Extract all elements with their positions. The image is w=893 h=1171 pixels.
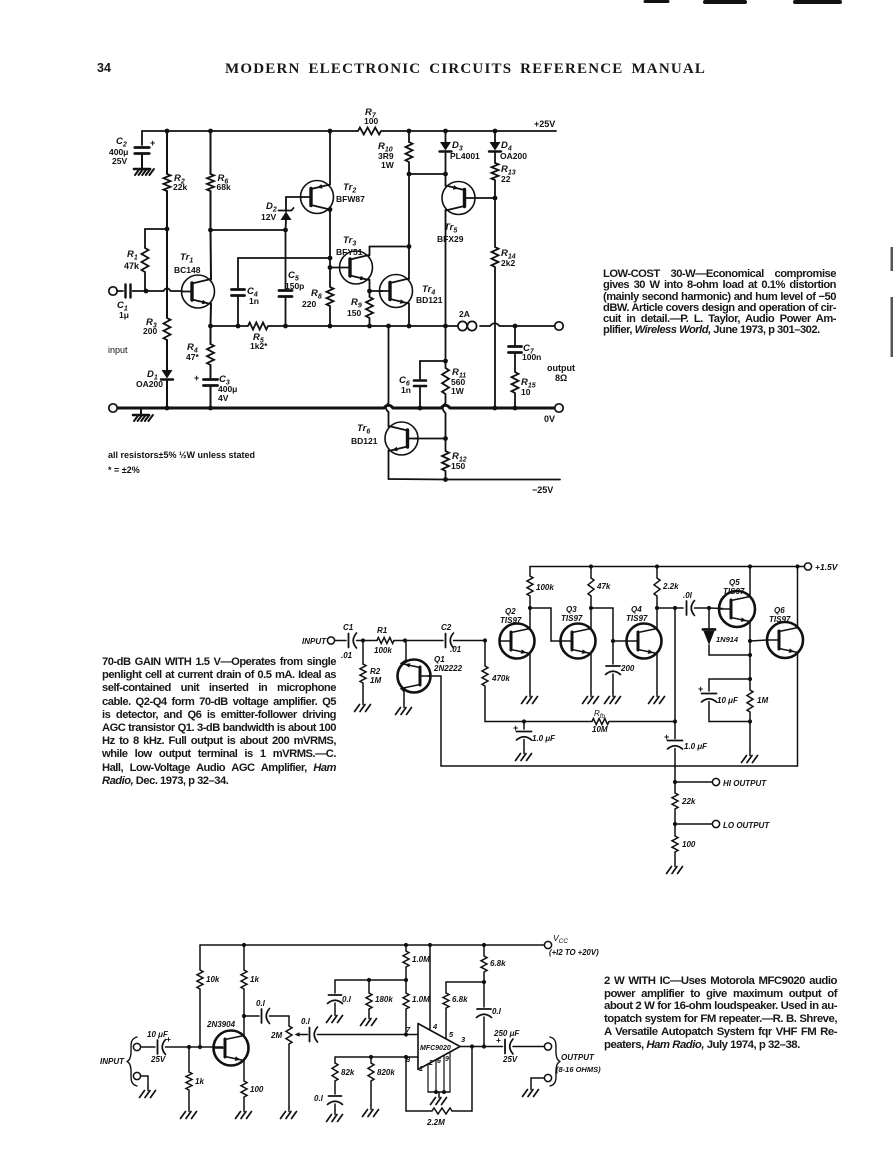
resistor 82k xyxy=(332,1063,355,1094)
wire Q1 collector xyxy=(401,641,406,664)
wire Tr3 collector xyxy=(370,247,410,256)
node Q2col xyxy=(528,606,532,610)
wire Q2 emitter xyxy=(529,653,531,692)
transistor Q5 xyxy=(719,578,755,627)
wire Tr2 base to D2 xyxy=(286,197,302,201)
wire Q6 emitter xyxy=(797,653,799,766)
input terminal upper c3 xyxy=(133,1043,140,1050)
svg-text:.01: .01 xyxy=(450,645,462,654)
node Tr3base-col xyxy=(328,265,333,270)
svg-text:+: + xyxy=(496,1035,501,1045)
wire lower input gnd xyxy=(141,1076,148,1086)
op-amp U1 MFC9020 xyxy=(418,1024,460,1070)
svg-text:+: + xyxy=(150,138,155,148)
svg-text:25V: 25V xyxy=(150,1055,166,1064)
svg-text:R1: R1 xyxy=(127,249,138,262)
label INPUT c3 xyxy=(100,1057,125,1066)
svg-text:470k: 470k xyxy=(491,674,510,683)
wire Q2col to Q3base xyxy=(530,608,561,641)
node pin2 bus xyxy=(434,1090,438,1094)
HI OUTPUT terminal xyxy=(712,778,767,788)
ground below R2 c2 xyxy=(355,700,371,712)
ground below 100 c2 xyxy=(667,862,683,874)
wire Tr5 emitter up xyxy=(445,174,447,186)
wire collector to cap xyxy=(244,1015,259,1017)
node rail-1k xyxy=(242,943,246,947)
scan artifact right bar 1 xyxy=(891,247,893,271)
svg-text:Tr3: Tr3 xyxy=(343,235,356,248)
capacitor 0.1 collector xyxy=(256,999,289,1024)
pin 4 wire xyxy=(430,945,438,1031)
scan artifact top dashes xyxy=(645,0,840,4)
wire Rfb line xyxy=(485,721,675,723)
node diodewire xyxy=(748,653,752,657)
ground below 0.1 bias xyxy=(327,1011,343,1023)
node 6.8k-0.1 xyxy=(482,980,486,984)
wire Q1 emitter-gnd xyxy=(401,689,404,704)
svg-text:2M: 2M xyxy=(270,1031,282,1040)
wire Q3col to Q4base xyxy=(591,608,627,641)
node Tr3col-R10col xyxy=(407,244,412,249)
ground below 1k bias xyxy=(181,1107,197,1119)
wire -25V rail xyxy=(446,480,560,496)
capacitor C2 c2 xyxy=(441,623,485,654)
svg-text:(8-16 OHMS): (8-16 OHMS) xyxy=(556,1065,601,1074)
node fb-1uF xyxy=(673,719,677,723)
caption text 70-dB gain xyxy=(102,656,336,788)
node rail-R2 xyxy=(165,129,170,134)
svg-text:LO OUTPUT: LO OUTPUT xyxy=(723,821,770,830)
transistor Tr6 xyxy=(351,422,418,455)
wire Tr1 emitter xyxy=(210,304,213,327)
node D3-link xyxy=(443,172,448,177)
wire input to Tr1 base xyxy=(133,288,182,291)
resistor R10 xyxy=(378,141,413,170)
svg-text:PL4001: PL4001 xyxy=(450,151,480,161)
svg-text:BFX29: BFX29 xyxy=(437,234,464,244)
svg-text:BC148: BC148 xyxy=(174,265,201,275)
svg-text:BFY51: BFY51 xyxy=(336,247,363,257)
node rail-D3 xyxy=(443,129,448,134)
svg-text:8Ω: 8Ω xyxy=(555,373,567,383)
svg-text:6.8k: 6.8k xyxy=(452,995,468,1004)
svg-text:0V: 0V xyxy=(544,414,555,424)
svg-text:2A: 2A xyxy=(459,309,470,319)
svg-text:200: 200 xyxy=(143,326,157,336)
node diode-Q5base xyxy=(707,606,711,610)
wire Tr4 base xyxy=(370,290,383,292)
svg-text:Q6: Q6 xyxy=(774,606,785,615)
capacitor 10uF c3 xyxy=(141,1030,189,1064)
svg-text:Tr1: Tr1 xyxy=(180,252,193,265)
wire base c3 xyxy=(189,1046,223,1048)
svg-text:−25V: −25V xyxy=(532,485,553,495)
resistor R2 xyxy=(164,173,188,192)
node 0.1-output xyxy=(482,1044,486,1048)
node rail-6.8k xyxy=(482,943,486,947)
node emitter-rail xyxy=(208,324,213,329)
0V terminal right xyxy=(555,404,563,412)
wire 0V rail xyxy=(113,405,559,408)
diode D4 xyxy=(489,131,527,163)
node R1-input xyxy=(144,289,149,294)
svg-text:+25V: +25V xyxy=(534,119,555,129)
capacitor .01 c2 xyxy=(683,591,709,616)
svg-text:.0l: .0l xyxy=(683,591,693,600)
zener diode D2 12V xyxy=(261,201,294,222)
svg-text:* = ±2%: * = ±2% xyxy=(108,465,140,475)
wire R10-D3 link xyxy=(409,173,446,175)
transistor Tr4 xyxy=(380,275,443,308)
capacitor 1.0uF mid xyxy=(664,722,708,783)
wire D2 to node xyxy=(285,220,288,230)
svg-text:0.l: 0.l xyxy=(301,1017,311,1026)
wire R3 to D1 xyxy=(166,340,168,370)
input brace c3 xyxy=(127,1037,137,1086)
wire fb column xyxy=(674,608,676,722)
resistor 6.8k inner xyxy=(443,982,468,1039)
ground below 2M xyxy=(281,1107,297,1119)
node rail-Q6 xyxy=(795,564,799,568)
wire lower output gnd xyxy=(531,1078,544,1085)
ground lower input xyxy=(140,1086,156,1098)
svg-text:1k: 1k xyxy=(250,975,259,984)
caption text 2 W with IC xyxy=(604,975,837,1051)
svg-text:22: 22 xyxy=(501,174,511,184)
resistor R9 xyxy=(347,291,373,326)
svg-text:0.l: 0.l xyxy=(342,995,352,1004)
svg-text:.01: .01 xyxy=(341,651,353,660)
caption text low-cost 30-W xyxy=(603,269,836,337)
svg-text:Rfb: Rfb xyxy=(594,709,605,720)
ground below 1.0uF left xyxy=(516,749,532,761)
node C6-0V xyxy=(418,406,423,411)
note resistors tolerance xyxy=(108,450,255,475)
wire to pot xyxy=(288,1016,290,1026)
svg-text:BD121: BD121 xyxy=(351,436,378,446)
node D2-C5 xyxy=(283,228,288,233)
node R12-minus25 xyxy=(443,477,448,482)
node R10-D3wire xyxy=(407,172,412,177)
resistor 100 c3 xyxy=(241,1081,264,1107)
input terminal lower c3 xyxy=(133,1072,140,1079)
svg-text:1.0M: 1.0M xyxy=(412,955,430,964)
pin 8 label xyxy=(406,1055,411,1064)
resistor 2.2k xyxy=(654,567,679,609)
svg-text:TIS97: TIS97 xyxy=(561,614,583,623)
svg-text:0.l: 0.l xyxy=(256,999,266,1008)
capacitor C1 xyxy=(117,285,131,321)
wire pin8 row xyxy=(335,1057,418,1063)
svg-text:+1.5V: +1.5V xyxy=(815,562,839,572)
diode 1N914 xyxy=(703,608,739,655)
resistor 100k Q2 load xyxy=(527,576,554,608)
svg-text:150: 150 xyxy=(347,308,361,318)
svg-text:TIS97: TIS97 xyxy=(500,616,522,625)
svg-text:OUTPUT: OUTPUT xyxy=(561,1053,595,1062)
svg-text:TIS97: TIS97 xyxy=(723,587,745,596)
node 820k-pin8 xyxy=(369,1055,373,1059)
resistor R11 xyxy=(442,326,466,438)
resistor 47k xyxy=(588,567,611,609)
svg-text:VCC: VCC xyxy=(553,933,568,945)
resistor 100 c2 xyxy=(672,824,696,862)
svg-text:2N3904: 2N3904 xyxy=(206,1020,236,1029)
svg-text:INPUT: INPUT xyxy=(302,637,327,646)
svg-text:47*: 47* xyxy=(186,352,199,362)
svg-text:1.0 μF: 1.0 μF xyxy=(684,742,708,751)
resistor R12 xyxy=(442,439,467,480)
svg-text:R1: R1 xyxy=(377,626,388,635)
node 200cap xyxy=(611,639,615,643)
resistor R1 xyxy=(124,229,149,272)
resistor 1.0M upper xyxy=(403,945,430,980)
wire output line c3 xyxy=(460,1035,503,1047)
wire diode to emitter node xyxy=(709,654,750,656)
svg-text:C2: C2 xyxy=(441,623,452,632)
ground symbol 0V xyxy=(133,410,153,421)
svg-text:+: + xyxy=(166,1034,171,1044)
wire 6.8k link xyxy=(446,981,484,983)
svg-text:0.l: 0.l xyxy=(314,1094,324,1103)
node HI OUTPUT xyxy=(673,780,677,784)
capacitor 200 xyxy=(606,641,635,692)
svg-text:100k: 100k xyxy=(536,583,554,592)
wire feedback bottom rail xyxy=(441,765,798,767)
svg-text:3: 3 xyxy=(461,1035,466,1044)
wire Q6 collector xyxy=(797,567,799,628)
resistor R8 xyxy=(302,287,334,326)
svg-text:10k: 10k xyxy=(206,975,220,984)
ground below C2 xyxy=(134,164,154,175)
node Q3col xyxy=(589,606,593,610)
svg-text:HI OUTPUT: HI OUTPUT xyxy=(723,779,767,788)
capacitor C3 xyxy=(194,365,237,408)
wire Tr6 emitter xyxy=(389,451,447,480)
+1.5V terminal xyxy=(804,562,838,572)
node R15-0V xyxy=(513,406,518,411)
resistor 1.0M lower xyxy=(403,980,430,1035)
transistor Tr5 xyxy=(437,182,475,245)
label input xyxy=(108,345,128,355)
transistor Q1 xyxy=(398,655,463,693)
resistor R1 100k xyxy=(374,626,394,655)
wire Tr6 base xyxy=(415,438,446,440)
wire R1 top hook xyxy=(145,228,167,230)
wire bias row xyxy=(335,980,406,993)
svg-text:1: 1 xyxy=(419,1066,423,1073)
label OUTPUT c3 xyxy=(556,1053,601,1074)
svg-text:all resistors±5% ½W unless sta: all resistors±5% ½W unless stated xyxy=(108,450,255,460)
svg-text:1M: 1M xyxy=(370,676,381,685)
ground below 820k xyxy=(363,1105,379,1117)
node R1-Q1-C2 xyxy=(403,638,407,642)
svg-text:(+I2 TO +20V): (+I2 TO +20V) xyxy=(549,948,599,957)
wire LO OUTPUT xyxy=(675,823,712,825)
capacitor 0.1 output xyxy=(477,982,502,1047)
svg-text:+: + xyxy=(698,684,703,694)
svg-text:R2: R2 xyxy=(370,667,381,676)
svg-text:1M: 1M xyxy=(757,696,768,705)
svg-text:Tr2: Tr2 xyxy=(343,182,356,195)
capacitor C7 xyxy=(509,324,542,372)
wire Tr2 emitter to rail xyxy=(329,131,331,185)
svg-text:1N914: 1N914 xyxy=(716,635,739,644)
wire C4 link xyxy=(238,258,330,288)
svg-text:Q1: Q1 xyxy=(434,655,445,664)
wire 1M to ground xyxy=(749,722,751,752)
node R8-rail xyxy=(328,324,333,329)
ground below 100 c3 xyxy=(236,1107,252,1119)
svg-text:10: 10 xyxy=(521,387,531,397)
wire Tr2 collector down xyxy=(328,207,333,287)
svg-text:1μ: 1μ xyxy=(119,310,129,320)
node rail-1.0M xyxy=(404,943,408,947)
svg-text:MFC9020: MFC9020 xyxy=(420,1045,451,1052)
capacitor C4 xyxy=(232,286,259,326)
output brace c3 xyxy=(550,1037,560,1086)
wire Q4 emitter xyxy=(656,654,658,692)
wire R1 ends xyxy=(363,640,405,642)
wire to C2 cap xyxy=(405,640,443,642)
transistor Tr1 xyxy=(174,252,215,308)
capacitor 10uF xyxy=(698,684,750,722)
wire Tr3 base xyxy=(330,267,340,269)
node LO OUTPUT xyxy=(673,822,677,826)
node rail-R6 xyxy=(208,129,213,134)
input terminal xyxy=(109,287,117,295)
svg-text:150p: 150p xyxy=(285,281,304,291)
resistor Rfb 10M xyxy=(592,709,609,734)
wire +1.5V rail xyxy=(530,567,806,577)
wire Q3 collector xyxy=(590,608,592,628)
svg-text:2: 2 xyxy=(428,1060,433,1067)
wire Q6 base xyxy=(750,640,767,641)
ground below Q2 xyxy=(522,692,538,704)
svg-text:47k: 47k xyxy=(124,261,140,271)
node rail-pin4 xyxy=(428,943,432,947)
svg-text:2N2222: 2N2222 xyxy=(433,664,463,673)
node C4wire-Tr2col xyxy=(328,256,333,261)
transistor Q3 xyxy=(561,605,596,659)
svg-text:82k: 82k xyxy=(341,1068,355,1077)
svg-text:9: 9 xyxy=(445,1056,449,1063)
svg-text:22k: 22k xyxy=(173,182,187,192)
fuse 2A xyxy=(458,309,477,331)
wire Tr5 base xyxy=(475,197,495,199)
svg-text:2k2: 2k2 xyxy=(501,258,515,268)
ground below Q3 xyxy=(583,692,599,704)
node Tr6col-output xyxy=(386,324,391,329)
transistor Tr2 xyxy=(301,181,366,214)
wire mid node to D2 xyxy=(211,229,286,231)
diode D3 xyxy=(440,131,481,174)
resistor R14 xyxy=(492,198,516,408)
capacitor 250uF xyxy=(493,1029,544,1064)
resistor 1M xyxy=(747,690,768,722)
resistor 6.8k outer xyxy=(481,945,506,982)
svg-text:1W: 1W xyxy=(381,160,395,170)
node C5-rail xyxy=(283,324,288,329)
label INPUT c2 xyxy=(302,637,327,646)
node 1.0M mid xyxy=(404,978,408,982)
svg-text:BFW87: BFW87 xyxy=(336,194,365,204)
resistor 470k xyxy=(482,641,510,722)
svg-text:TIS97: TIS97 xyxy=(626,614,648,623)
resistor 1k bias xyxy=(186,1047,204,1107)
svg-text:2.2M: 2.2M xyxy=(426,1118,445,1127)
svg-text:1.0 μF: 1.0 μF xyxy=(532,734,556,743)
pins 1 2 6 9 drops xyxy=(419,1052,450,1092)
input terminal c2 xyxy=(327,637,334,644)
capacitor 0.1 wiper xyxy=(301,1017,418,1042)
wire Tr4 emitter xyxy=(408,304,410,327)
svg-text:220: 220 xyxy=(302,299,316,309)
svg-text:output: output xyxy=(547,363,575,373)
svg-text:Q3: Q3 xyxy=(566,605,577,614)
svg-text:820k: 820k xyxy=(377,1068,395,1077)
wire Q4col to .01 xyxy=(657,607,683,609)
node 180k top xyxy=(367,978,371,982)
node rail-47k xyxy=(589,564,593,568)
node feedback tap xyxy=(470,1044,474,1048)
ground below 1M xyxy=(742,751,758,763)
wire 2N3904 emitter xyxy=(243,1061,245,1081)
wire Q5e down xyxy=(749,641,751,690)
OUTPUT terminal upper xyxy=(544,1043,551,1050)
wire HI OUTPUT xyxy=(675,781,712,783)
ground below output xyxy=(523,1085,539,1097)
transistor Q2 xyxy=(500,607,535,659)
node 1.0M-pin7 xyxy=(404,1032,408,1036)
svg-text:1.0M: 1.0M xyxy=(412,995,430,1004)
svg-text:100n: 100n xyxy=(522,352,541,362)
node Tr3e-R9-Tr4b xyxy=(367,289,372,294)
node rail-2.2k xyxy=(655,564,659,568)
node R13-base xyxy=(493,196,498,201)
node collector-D2wire xyxy=(208,228,213,233)
0V terminal left xyxy=(109,404,117,412)
wire R2 column xyxy=(166,131,168,318)
svg-text:Q4: Q4 xyxy=(631,605,642,614)
capacitor 0.1 82k xyxy=(314,1094,343,1110)
label 0V xyxy=(544,414,555,424)
svg-text:OA200: OA200 xyxy=(136,379,163,389)
node rail-D4 xyxy=(493,129,498,134)
node Q4col-fb xyxy=(673,606,677,610)
node 2.2M-pin8 xyxy=(404,1055,408,1059)
resistor R5 xyxy=(248,323,268,352)
svg-text:200: 200 xyxy=(620,664,635,673)
node 1M bottom xyxy=(748,719,752,723)
wire D1 to 0V xyxy=(166,381,168,408)
resistor R4 xyxy=(186,326,214,365)
node Q5e-Q6base xyxy=(748,639,752,643)
node R14-0V xyxy=(492,406,497,411)
wire Q5 base xyxy=(709,607,723,610)
svg-text:68k: 68k xyxy=(217,182,231,192)
svg-text:6.8k: 6.8k xyxy=(490,959,506,968)
resistor R13 xyxy=(492,163,516,198)
wire Q4 collector xyxy=(656,608,658,628)
resistor 1k collector xyxy=(241,945,259,1016)
svg-text:6: 6 xyxy=(437,1058,441,1065)
wire Tr3 emitter xyxy=(369,280,371,292)
node C2-470k-Q2base xyxy=(483,638,487,642)
svg-text:150: 150 xyxy=(451,461,465,471)
capacitor C2 xyxy=(109,131,155,166)
resistor R15 xyxy=(512,372,536,408)
